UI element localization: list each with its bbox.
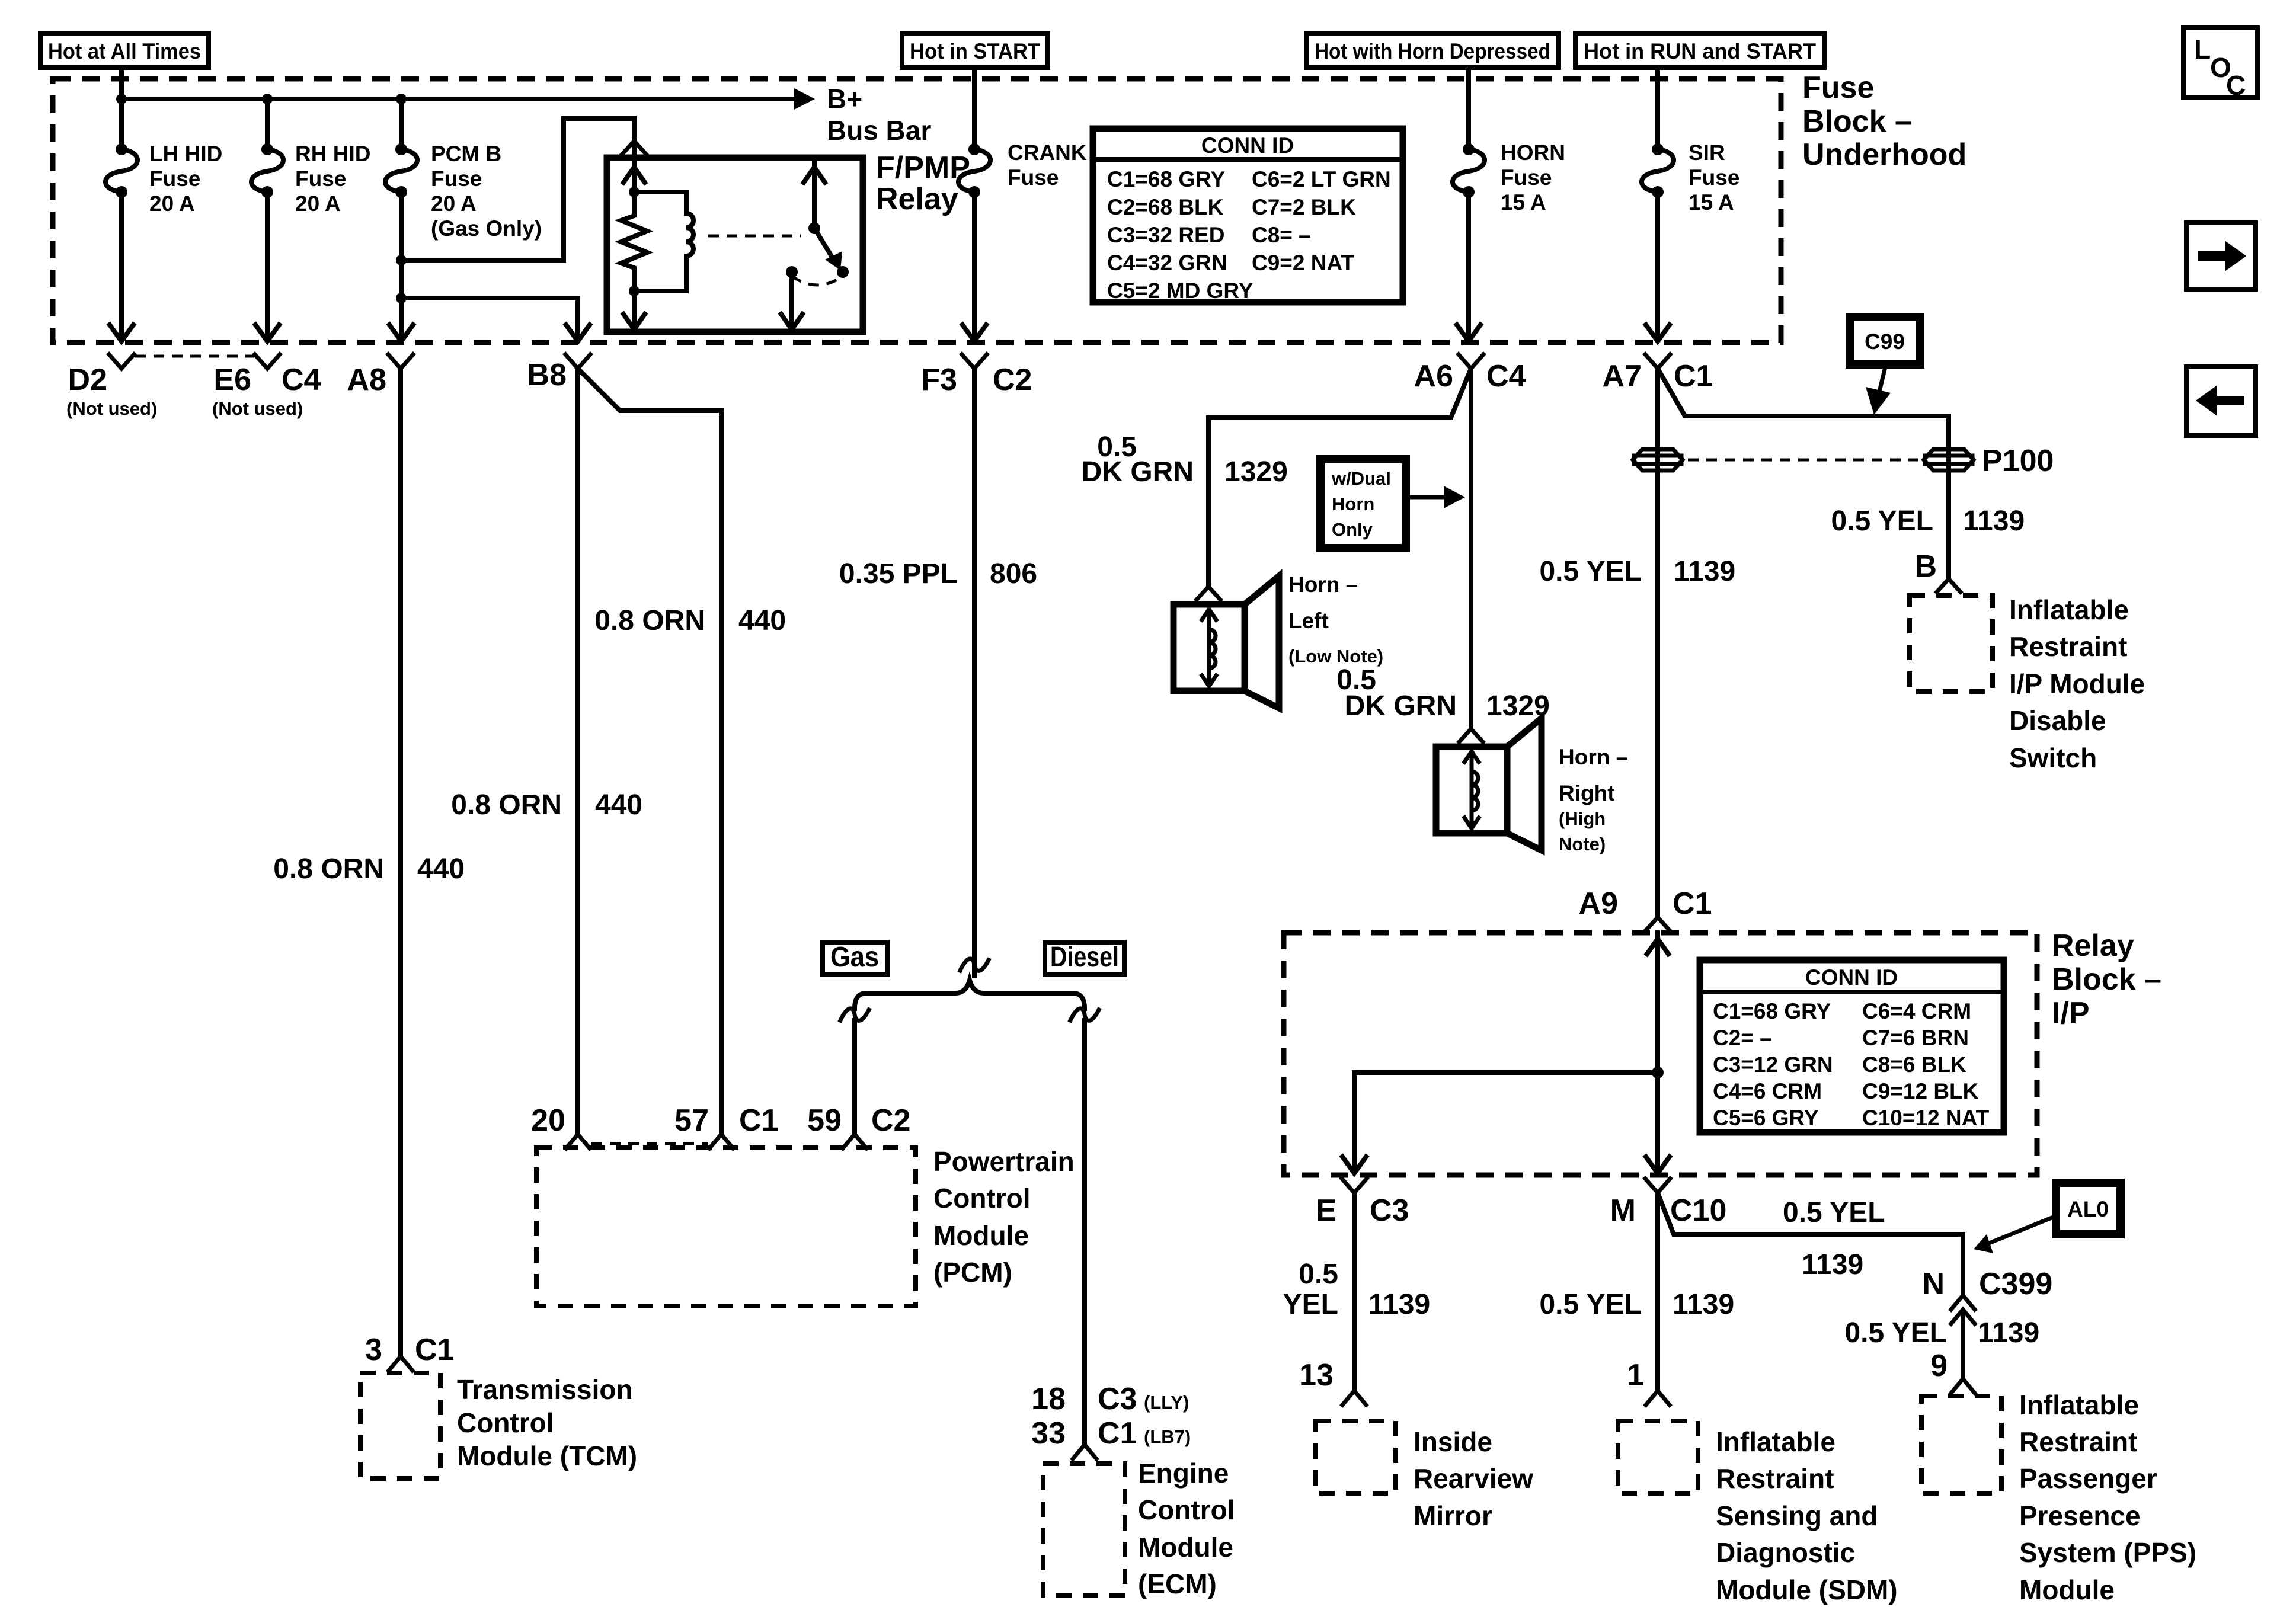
svg-text:20 A: 20 A: [431, 191, 477, 216]
wire: Hot in RUN and START to SIR fuse: [1655, 68, 1660, 149]
connector A6/C4: [1414, 354, 1526, 393]
connector B at disable switch: [1914, 549, 1961, 592]
connector PCM pin 57 C1: [674, 1103, 778, 1148]
node: relay block junction: [1652, 1067, 1664, 1078]
svg-text:B: B: [1914, 549, 1937, 584]
svg-text:1139: 1139: [1802, 1249, 1863, 1281]
fuse block label: [1802, 71, 1966, 172]
label: 0.5 DK GRN 1329 (horn left): [1082, 431, 1288, 488]
wire: M to SDM: [1655, 1193, 1660, 1390]
svg-text:C7=2 BLK: C7=2 BLK: [1252, 195, 1356, 219]
svg-text:1139: 1139: [1978, 1317, 2039, 1349]
icon box: arrow right: [2186, 222, 2256, 290]
label box: Gas: [823, 942, 887, 975]
svg-text:20 A: 20 A: [295, 191, 341, 216]
label: 0.8 ORN 440 (pin 57 wire): [594, 605, 786, 636]
wire: C399 to PPS: [1961, 1313, 1965, 1378]
connector chevron above relay coil pin: [622, 141, 646, 154]
svg-text:Fuse: Fuse: [149, 167, 200, 191]
svg-text:C1: C1: [1673, 886, 1712, 921]
connector ECM pins 18/33: [1031, 1382, 1191, 1459]
wire: gas branch to PCM pin 59: [852, 1020, 857, 1133]
wire: RH HID fuse to E6: [265, 192, 270, 339]
svg-text:CONN ID: CONN ID: [1201, 133, 1294, 158]
node: PCM B branch to B8: [396, 293, 407, 303]
node: relay coil bottom: [629, 286, 639, 296]
wire: A6 jog to horn left: [1208, 369, 1471, 587]
svg-text:Diagnostic: Diagnostic: [1716, 1537, 1855, 1568]
svg-text:Fuse: Fuse: [1008, 165, 1059, 190]
svg-text:Module: Module: [933, 1220, 1029, 1251]
arrow down at relay block bottom E: [1342, 1157, 1366, 1173]
svg-text:15 A: 15 A: [1689, 190, 1734, 215]
svg-text:DK GRN: DK GRN: [1082, 456, 1194, 488]
svg-text:A8: A8: [347, 363, 386, 397]
arrow down at A7: [1646, 325, 1670, 341]
resistor in relay: [621, 192, 647, 291]
svg-text:C4=6 CRM: C4=6 CRM: [1713, 1079, 1822, 1103]
svg-text:Disable: Disable: [2009, 705, 2106, 736]
wire: A8 to TCM pin 3: [398, 369, 403, 1356]
svg-text:C1=68 GRY: C1=68 GRY: [1107, 167, 1225, 191]
connector chevron horn left: [1197, 587, 1220, 600]
label: Powertrain Control Module (PCM): [933, 1146, 1075, 1288]
svg-text:C399: C399: [1979, 1267, 2052, 1301]
node: bus junction LH HID: [116, 94, 127, 104]
svg-text:I/P: I/P: [2052, 996, 2090, 1030]
svg-text:Left: Left: [1288, 609, 1329, 633]
svg-text:Fuse: Fuse: [1501, 165, 1552, 190]
svg-text:C1=68 GRY: C1=68 GRY: [1713, 999, 1831, 1023]
wire: PCM B fuse to A8: [399, 192, 404, 339]
svg-text:Hot in START: Hot in START: [910, 39, 1040, 63]
label: F/PMP Relay: [876, 151, 970, 216]
svg-text:440: 440: [738, 605, 786, 636]
svg-text:(LLY): (LLY): [1144, 1392, 1189, 1413]
svg-text:33: 33: [1031, 1416, 1066, 1451]
arrow down at F3: [962, 325, 986, 341]
coil in relay: [634, 192, 693, 291]
label box: AL0: [2056, 1183, 2121, 1234]
brace gas/diesel split: [855, 980, 1085, 1009]
PPS dashed box: [1921, 1396, 2001, 1493]
svg-text:CONN ID: CONN ID: [1805, 965, 1898, 990]
svg-text:0.5 YEL: 0.5 YEL: [1831, 505, 1933, 537]
label box: Hot at All Times: [40, 33, 209, 68]
wire: PCM B fuse to F/PMP relay coil: [401, 119, 634, 260]
label: 0.35 PPL 806: [839, 558, 1037, 590]
svg-text:C3=12 GRN: C3=12 GRN: [1713, 1052, 1833, 1077]
fuse HORN 15A: [1453, 143, 1485, 198]
svg-text:Inflatable: Inflatable: [2009, 594, 2129, 625]
svg-text:N: N: [1922, 1267, 1945, 1301]
arrow from w/Dual box to horn wire: [1406, 486, 1465, 508]
svg-text:1139: 1139: [1963, 505, 2025, 537]
CONN ID table (fuse block): [1093, 129, 1403, 303]
wire: CRANK fuse to F3: [972, 192, 977, 339]
svg-text:C9=2 NAT: C9=2 NAT: [1252, 251, 1354, 275]
svg-text:1139: 1139: [1673, 1289, 1734, 1320]
svg-text:Fuse: Fuse: [1802, 71, 1874, 105]
label: Transmission Control Module (TCM): [457, 1374, 637, 1471]
svg-text:C8= –: C8= –: [1252, 223, 1311, 247]
svg-text:C4: C4: [282, 363, 321, 397]
relay switch output pin arrow (down): [781, 272, 802, 329]
arrow from C99 to wire: [1866, 364, 1891, 415]
svg-text:C1: C1: [1674, 359, 1713, 393]
TCM dashed box: [360, 1373, 440, 1478]
svg-text:A9: A9: [1579, 886, 1618, 921]
svg-text:Module: Module: [2019, 1574, 2115, 1605]
connector A8: [347, 354, 413, 397]
svg-text:Transmission: Transmission: [457, 1374, 633, 1405]
label box: Hot with Horn Depressed: [1306, 33, 1559, 68]
svg-text:RH HID: RH HID: [295, 142, 370, 166]
svg-text:0.5 YEL: 0.5 YEL: [1539, 1289, 1642, 1320]
wire: bus to PCM B fuse: [399, 99, 404, 149]
connector TCM pin 3 C1: [365, 1333, 454, 1371]
wire break squiggle gas branch: [840, 1009, 869, 1020]
svg-text:13: 13: [1299, 1358, 1334, 1393]
svg-text:59: 59: [807, 1103, 842, 1138]
node: bus junction PCM B: [396, 94, 407, 104]
label: CRANK fuse: [1008, 140, 1087, 190]
arrow down at A8: [389, 325, 413, 341]
disable switch dashed box: [1910, 596, 1993, 692]
svg-text:Horn: Horn: [1332, 494, 1374, 514]
svg-text:Fuse: Fuse: [431, 167, 482, 191]
node: relay coil top: [629, 187, 639, 197]
dashed link pin 20 to pin 57: [591, 1142, 708, 1145]
svg-text:1139: 1139: [1368, 1289, 1430, 1320]
arrow down at D2: [110, 325, 133, 341]
icon box: arrow left: [2186, 367, 2256, 436]
svg-text:Engine: Engine: [1138, 1458, 1229, 1489]
horn right symbol: [1436, 718, 1542, 850]
svg-text:DK GRN: DK GRN: [1345, 690, 1457, 722]
fuse LH HID 20A: [105, 143, 137, 198]
wire: F3 to gas/diesel split: [972, 369, 977, 975]
connector C399 N: [1922, 1267, 2052, 1324]
label: Inflatable Restraint Sensing and Diagnostic Module (SDM): [1716, 1426, 1898, 1605]
svg-text:I/P Module: I/P Module: [2009, 668, 2145, 699]
svg-text:(PCM): (PCM): [933, 1257, 1012, 1288]
svg-text:C1: C1: [1098, 1416, 1137, 1451]
connector PPS pin 9: [1930, 1349, 1975, 1393]
svg-text:LH HID: LH HID: [149, 142, 222, 166]
label: 0.5 YEL 1139 (SIR wire): [1539, 556, 1735, 587]
wire: M branch to C399: [1658, 1193, 1963, 1295]
svg-text:Inside: Inside: [1414, 1426, 1492, 1457]
grommet P100 on disable switch wire: [1924, 449, 1974, 470]
svg-text:1: 1: [1627, 1358, 1644, 1393]
svg-text:Powertrain: Powertrain: [933, 1146, 1075, 1177]
svg-text:Fuse: Fuse: [295, 167, 346, 191]
svg-text:0.35 PPL: 0.35 PPL: [839, 558, 958, 590]
svg-text:AL0: AL0: [2067, 1197, 2109, 1221]
label: 0.5 YEL 1139 (AL0 branch): [1783, 1197, 1885, 1281]
svg-text:A7: A7: [1603, 359, 1642, 393]
connector chevron horn right: [1459, 729, 1483, 742]
dashed mechanical coupling in relay: [708, 235, 801, 238]
svg-text:440: 440: [417, 853, 465, 885]
connector mirror pin 13: [1299, 1358, 1366, 1405]
svg-text:F/PMP: F/PMP: [876, 151, 970, 185]
svg-text:806: 806: [990, 558, 1037, 590]
label box: Hot in START: [902, 33, 1048, 68]
SDM dashed box: [1618, 1421, 1698, 1493]
svg-text:440: 440: [595, 789, 642, 821]
svg-text:0.5 YEL: 0.5 YEL: [1783, 1197, 1885, 1228]
svg-text:Inflatable: Inflatable: [1716, 1426, 1835, 1457]
label: 0.5 DK GRN 1329 (horn right): [1336, 664, 1550, 722]
arrow down at relay block bottom M: [1646, 1157, 1670, 1173]
svg-text:Restraint: Restraint: [2019, 1426, 2137, 1457]
svg-text:Control: Control: [457, 1407, 554, 1438]
svg-text:Fuse: Fuse: [1689, 165, 1739, 190]
svg-text:C2: C2: [993, 363, 1032, 397]
arrow down at A6: [1457, 325, 1480, 341]
svg-text:(ECM): (ECM): [1138, 1569, 1217, 1599]
svg-text:Horn –: Horn –: [1559, 745, 1628, 769]
label box: Diesel: [1045, 942, 1124, 975]
wire: bus to LH HID fuse: [119, 99, 124, 149]
svg-text:(High: (High: [1559, 808, 1606, 829]
wire: A7 to A9: [1655, 369, 1660, 917]
ECM dashed box: [1043, 1464, 1125, 1595]
svg-text:C9=12 BLK: C9=12 BLK: [1862, 1079, 1979, 1103]
inside rearview mirror dashed box: [1316, 1421, 1396, 1493]
connector B8: [527, 354, 590, 392]
svg-text:Horn –: Horn –: [1288, 572, 1358, 597]
wire: PCM B fuse to B8 feed: [401, 298, 578, 339]
arrow down at E6: [255, 325, 279, 341]
svg-text:3: 3: [365, 1333, 382, 1367]
fuse SIR 15A: [1642, 143, 1674, 198]
svg-text:Switch: Switch: [2009, 742, 2097, 773]
svg-text:C99: C99: [1865, 329, 1905, 354]
svg-text:0.5: 0.5: [1299, 1259, 1338, 1290]
svg-text:C: C: [2226, 70, 2246, 101]
arrow from AL0 to wire: [1974, 1216, 2056, 1253]
svg-text:Sensing and: Sensing and: [1716, 1500, 1878, 1531]
svg-text:0.8 ORN: 0.8 ORN: [451, 789, 562, 821]
label: PCM B fuse: [431, 142, 542, 241]
label: 0.5 YEL 1139 (mirror wire): [1283, 1259, 1431, 1320]
connector D2 (not used): [66, 354, 157, 419]
svg-text:Underhood: Underhood: [1802, 137, 1966, 172]
svg-text:C3=32 RED: C3=32 RED: [1107, 223, 1224, 247]
svg-text:Rearview: Rearview: [1414, 1463, 1533, 1494]
svg-text:0.5 YEL: 0.5 YEL: [1539, 556, 1642, 587]
wire: Hot in START to CRANK fuse: [972, 68, 977, 149]
label: Inflatable Restraint I/P Module Disable Switch: [2009, 594, 2145, 773]
connector E6/C4 (not used): [212, 354, 321, 419]
svg-text:Hot with Horn Depressed: Hot with Horn Depressed: [1315, 39, 1550, 63]
svg-text:Restraint: Restraint: [1716, 1463, 1834, 1494]
svg-text:E: E: [1316, 1193, 1336, 1228]
svg-text:HORN: HORN: [1501, 140, 1565, 165]
label: Engine Control Module (ECM): [1138, 1458, 1235, 1599]
svg-text:D2: D2: [68, 363, 107, 397]
fuse CRANK: [958, 143, 990, 198]
svg-text:(LB7): (LB7): [1144, 1426, 1191, 1447]
svg-text:C8=6 BLK: C8=6 BLK: [1862, 1052, 1966, 1077]
label: RH HID fuse: [295, 142, 370, 216]
svg-text:20: 20: [531, 1103, 565, 1138]
svg-text:C6=2 LT GRN: C6=2 LT GRN: [1252, 167, 1391, 191]
wire: bus to RH HID fuse: [265, 99, 270, 149]
svg-text:1139: 1139: [1674, 556, 1735, 587]
svg-text:18: 18: [1031, 1382, 1066, 1416]
label box: w/Dual Horn Only: [1320, 459, 1406, 548]
relay switch common pin arrow (up): [804, 158, 825, 228]
label: B+ Bus Bar: [827, 84, 931, 146]
wire: A7 jog to disable switch: [1658, 369, 1949, 579]
label: 0.5 YEL 1139 (disable switch wire): [1831, 505, 2025, 537]
svg-text:C5=6 GRY: C5=6 GRY: [1713, 1106, 1819, 1130]
wire: E to inside rearview mirror: [1352, 1193, 1357, 1390]
svg-text:C3: C3: [1370, 1193, 1409, 1228]
svg-text:PCM B: PCM B: [431, 142, 501, 166]
svg-text:(Low Note): (Low Note): [1288, 646, 1383, 667]
connector PCM pin 20: [531, 1103, 590, 1148]
svg-text:C10=12 NAT: C10=12 NAT: [1862, 1106, 1990, 1130]
label: Horn Left (Low Note): [1288, 572, 1383, 667]
label: 0.8 ORN 440 (A8 wire): [273, 853, 465, 885]
relay switch arm with arrowhead: [814, 228, 842, 270]
svg-text:0.5 YEL: 0.5 YEL: [1844, 1317, 1947, 1349]
svg-text:C4: C4: [1486, 359, 1526, 393]
connector M/C10: [1610, 1179, 1727, 1228]
svg-text:w/Dual: w/Dual: [1331, 468, 1391, 489]
wire: Hot with Horn Depressed to HORN fuse: [1466, 68, 1471, 149]
dashed link D2 to E6: [135, 355, 254, 358]
wire: diesel branch to ECM: [1082, 1020, 1087, 1444]
connector A9/C1: [1579, 886, 1712, 930]
wire: B+ bus bar: [121, 97, 797, 101]
dashed link between P100 grommets: [1688, 459, 1918, 462]
relay coil pin arrow (up): [623, 158, 645, 192]
svg-text:C2= –: C2= –: [1713, 1026, 1772, 1050]
svg-text:Mirror: Mirror: [1414, 1500, 1492, 1531]
svg-text:(Not used): (Not used): [212, 398, 303, 419]
svg-text:Passenger: Passenger: [2019, 1463, 2157, 1494]
connector E/C3: [1316, 1179, 1409, 1228]
wire: HORN fuse to A6: [1466, 192, 1471, 339]
svg-text:SIR: SIR: [1689, 140, 1725, 165]
connector PCM pin 59 C2: [807, 1103, 910, 1148]
svg-text:Module (TCM): Module (TCM): [457, 1441, 637, 1471]
svg-text:Relay: Relay: [876, 182, 958, 216]
svg-text:20 A: 20 A: [149, 191, 195, 216]
wire: A6 to horn right: [1469, 369, 1473, 729]
wire: SIR fuse to A7: [1655, 192, 1660, 339]
svg-text:Only: Only: [1332, 519, 1373, 540]
fuse RH HID 20A: [251, 143, 283, 198]
svg-text:Restraint: Restraint: [2009, 631, 2127, 662]
svg-text:Control: Control: [933, 1183, 1031, 1214]
svg-text:9: 9: [1930, 1349, 1948, 1383]
CONN ID table (relay block): [1700, 960, 2004, 1132]
svg-text:Control: Control: [1138, 1494, 1235, 1525]
wire: B8 jog to PCM pin 57: [578, 369, 721, 1133]
svg-text:C3: C3: [1098, 1382, 1137, 1416]
svg-text:YEL: YEL: [1283, 1289, 1338, 1320]
connector A7/C1: [1603, 354, 1713, 393]
label: 0.5 YEL 1139 (PPS wire): [1844, 1317, 2039, 1349]
svg-text:B+: B+: [827, 84, 862, 114]
svg-text:0.8 ORN: 0.8 ORN: [273, 853, 384, 885]
svg-text:A6: A6: [1414, 359, 1453, 393]
svg-text:System (PPS): System (PPS): [2019, 1537, 2196, 1568]
svg-text:0.8 ORN: 0.8 ORN: [594, 605, 705, 636]
svg-text:Presence: Presence: [2019, 1500, 2141, 1531]
svg-text:15 A: 15 A: [1501, 190, 1546, 215]
node: relay switch contact right: [837, 266, 849, 278]
svg-text:Note): Note): [1559, 834, 1606, 854]
svg-text:(Not used): (Not used): [66, 398, 157, 419]
connector SDM pin 1: [1627, 1358, 1670, 1405]
svg-text:F3: F3: [921, 363, 957, 397]
wire: junction to E: [1354, 1073, 1658, 1171]
svg-text:Inflatable: Inflatable: [2019, 1390, 2139, 1420]
svg-text:1329: 1329: [1224, 456, 1288, 488]
label: HORN fuse: [1501, 140, 1565, 215]
svg-text:M: M: [1610, 1193, 1636, 1228]
node: PCM B branch to relay coil: [396, 255, 407, 265]
svg-text:(Gas Only): (Gas Only): [431, 216, 542, 241]
dashed arc between relay contacts: [792, 276, 843, 285]
svg-text:C1: C1: [415, 1333, 454, 1367]
svg-text:Relay: Relay: [2052, 929, 2134, 963]
svg-text:57: 57: [674, 1103, 709, 1138]
relay coil bottom pin arrow (down): [623, 291, 645, 329]
arrow down at B8: [566, 325, 590, 341]
label: Inflatable Restraint Passenger Presence System (PPS) Module: [2019, 1390, 2196, 1605]
wire: B8 to PCM pin 20: [575, 369, 580, 1133]
svg-text:L: L: [2194, 34, 2211, 65]
wire: LH HID fuse to D2: [119, 192, 124, 339]
svg-text:Hot at All Times: Hot at All Times: [48, 39, 201, 63]
relay F/PMP box: [607, 158, 863, 332]
grommet P100 on SIR wire: [1633, 449, 1683, 470]
svg-text:C2: C2: [871, 1103, 910, 1138]
svg-text:C5=2 MD GRY: C5=2 MD GRY: [1107, 279, 1253, 303]
svg-text:Module: Module: [1138, 1532, 1233, 1563]
svg-text:C6=4 CRM: C6=4 CRM: [1862, 999, 1971, 1023]
fuse PCM B 20A: [385, 143, 417, 198]
svg-text:Block –: Block –: [2052, 962, 2161, 997]
svg-text:CRANK: CRANK: [1008, 140, 1087, 165]
relay block label: [2052, 929, 2161, 1030]
svg-text:C10: C10: [1670, 1193, 1726, 1228]
svg-text:Bus Bar: Bus Bar: [827, 115, 931, 146]
svg-text:C4=32 GRN: C4=32 GRN: [1107, 251, 1227, 275]
horn left symbol: [1173, 576, 1279, 708]
arrow to B+ bus bar: [794, 88, 815, 110]
label: LH HID fuse: [149, 142, 222, 216]
label box: C99: [1850, 317, 1920, 364]
svg-text:Block –: Block –: [1802, 104, 1912, 139]
node: relay switch pivot: [808, 222, 820, 234]
svg-text:C1: C1: [739, 1103, 778, 1138]
node: bus junction RH HID: [262, 94, 273, 104]
svg-text:Diesel: Diesel: [1050, 942, 1119, 973]
label: SIR fuse: [1689, 140, 1739, 215]
svg-text:Module (SDM): Module (SDM): [1716, 1574, 1898, 1605]
label: Inside Rearview Mirror: [1414, 1426, 1533, 1531]
